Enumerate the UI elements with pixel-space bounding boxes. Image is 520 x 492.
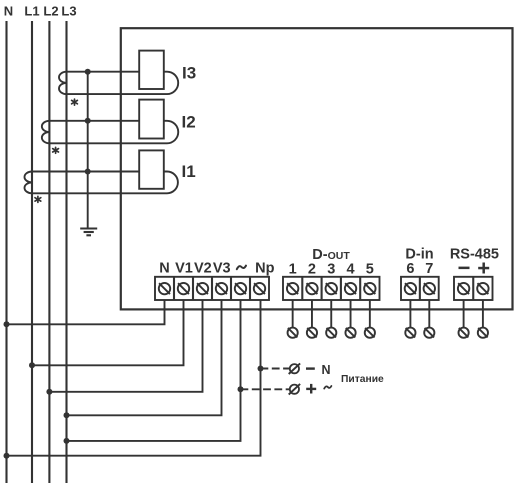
svg-text:L3: L3 <box>61 4 76 19</box>
svg-text:L2: L2 <box>43 4 58 19</box>
svg-text:V2: V2 <box>194 261 212 277</box>
svg-text:I2: I2 <box>182 113 196 132</box>
svg-text:3: 3 <box>327 262 335 278</box>
svg-text:1: 1 <box>289 262 297 278</box>
svg-text:4: 4 <box>347 262 355 278</box>
svg-text:N: N <box>321 363 330 377</box>
svg-text:I1: I1 <box>182 162 196 181</box>
svg-text:N: N <box>4 4 13 19</box>
svg-text:I3: I3 <box>182 64 196 83</box>
svg-text:N: N <box>159 261 169 277</box>
svg-text:Np: Np <box>255 261 274 277</box>
svg-text:5: 5 <box>366 262 374 278</box>
svg-text:RS-485: RS-485 <box>450 247 499 263</box>
svg-text:D-in: D-in <box>405 247 433 263</box>
svg-text:D-OUT: D-OUT <box>312 247 350 263</box>
svg-text:L1: L1 <box>24 4 39 19</box>
svg-text:6: 6 <box>406 261 414 277</box>
svg-text:7: 7 <box>425 261 433 277</box>
svg-text:Питание: Питание <box>341 374 384 385</box>
svg-text:V3: V3 <box>213 261 231 277</box>
svg-text:2: 2 <box>308 262 316 278</box>
svg-text:V1: V1 <box>175 261 193 277</box>
